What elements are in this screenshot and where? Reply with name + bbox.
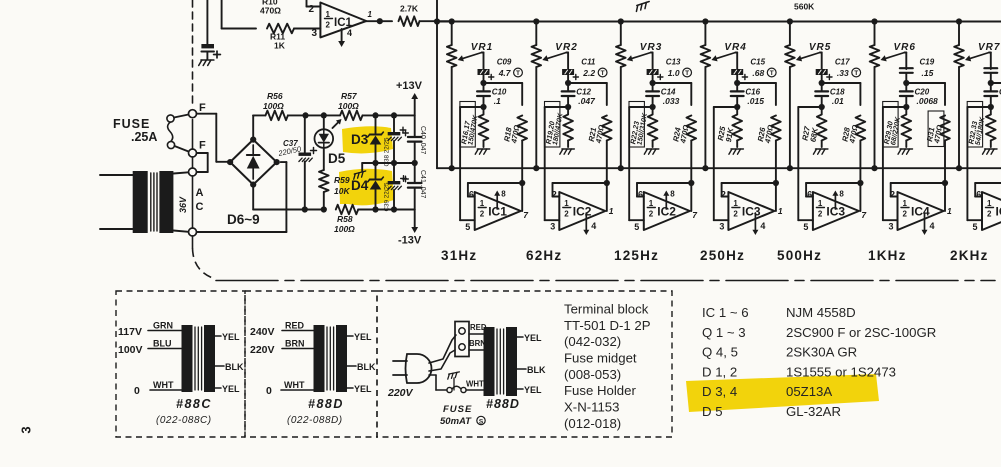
wiper wire VR4 <box>735 52 737 54</box>
svg-text:T: T <box>770 70 774 77</box>
node feedback junction IC3 <box>857 180 863 186</box>
svg-text:S: S <box>479 419 484 426</box>
node C12 bottom junction <box>565 104 571 110</box>
svg-text:125Hz: 125Hz <box>614 248 659 263</box>
node lower bus junction VR7 <box>956 165 962 171</box>
lower bus wire <box>437 167 1001 169</box>
svg-text:F: F <box>199 140 206 152</box>
node lower bus junction VR1 <box>449 165 455 171</box>
capacitor C22 <box>990 83 992 91</box>
wire YEL upper #88D-2 <box>347 335 353 337</box>
ground below R16,17 <box>475 149 490 154</box>
node VR5 cap junction <box>819 80 825 86</box>
svg-text:220V: 220V <box>387 387 414 399</box>
bridge rectifier D6~9 <box>230 140 277 185</box>
resistor R57 <box>340 111 362 121</box>
transformer #88C windings <box>182 325 193 392</box>
svg-text:500Hz: 500Hz <box>777 248 822 263</box>
svg-text:C17: C17 <box>835 58 850 67</box>
terminal F lower <box>189 149 197 157</box>
svg-text:1: 1 <box>564 199 569 208</box>
wire BLK box3 <box>517 368 526 370</box>
resistor R59 <box>323 148 325 170</box>
node top bus junction VR3 <box>618 18 624 24</box>
svg-text:.01: .01 <box>832 96 844 106</box>
svg-text:C: C <box>196 201 204 213</box>
svg-text:1K: 1K <box>274 41 286 51</box>
op-amp 1/2 IC4 <box>898 192 944 230</box>
svg-text:VR5: VR5 <box>809 42 831 53</box>
chain line to parts area <box>216 280 995 282</box>
dashed option box 1 <box>116 291 245 437</box>
svg-text:1: 1 <box>480 199 485 208</box>
potentiometer VR4 <box>704 22 706 46</box>
svg-text:2SC900 F or 2SC-100GR: 2SC900 F or 2SC-100GR <box>786 325 936 340</box>
capacitor C36 <box>206 0 208 44</box>
svg-text:0: 0 <box>134 385 140 397</box>
node lower bus junction VR6 <box>871 165 877 171</box>
op-amp 1/2 IC2 <box>559 192 605 230</box>
capacitor C16 <box>736 83 738 91</box>
feedback wire IC1 <box>468 182 522 184</box>
wire jog terminal F lower to transformer <box>197 152 208 154</box>
node lower bus junction VR2 <box>533 165 539 171</box>
svg-text:IC4: IC4 <box>911 205 930 219</box>
zener diode D4 <box>375 163 377 179</box>
capacitor C41 <box>414 163 416 183</box>
svg-text:1S1555 or 1S2473: 1S1555 or 1S2473 <box>786 364 896 379</box>
svg-text:5: 5 <box>803 222 808 232</box>
svg-text:(022-088D): (022-088D) <box>287 415 343 426</box>
wire BLK #88C <box>215 365 224 367</box>
svg-text:470Ω: 470Ω <box>260 6 281 16</box>
wiper wire VR7 <box>989 52 991 54</box>
svg-text:8: 8 <box>501 190 506 199</box>
svg-text:RED: RED <box>285 321 305 331</box>
svg-text:6: 6 <box>469 190 474 200</box>
svg-text:.68: .68 <box>752 68 764 78</box>
highlight over D4 <box>339 169 394 206</box>
node VR4 cap junction <box>734 80 740 86</box>
capacitor C40 <box>414 115 416 137</box>
svg-text:WHT: WHT <box>466 380 484 389</box>
svg-text:X-N-1153: X-N-1153 <box>564 400 619 415</box>
svg-text:100Ω: 100Ω <box>263 101 284 111</box>
LED D5 <box>323 115 325 129</box>
transformer T1 primary stub wires <box>100 174 133 176</box>
svg-text:T: T <box>685 70 689 77</box>
capacitor C20 <box>905 83 907 91</box>
resistor R21 <box>602 116 612 141</box>
svg-text:YEL: YEL <box>524 385 542 395</box>
transformer T1 windings <box>133 171 148 233</box>
svg-text:6: 6 <box>807 190 812 200</box>
potentiometer VR5 <box>789 22 791 46</box>
feedback wire IC4 <box>891 182 945 184</box>
terminal F upper <box>189 110 197 118</box>
svg-text:2: 2 <box>721 190 726 200</box>
+13V supply arrow <box>414 99 416 115</box>
svg-text:3: 3 <box>312 28 318 39</box>
svg-text:YEL: YEL <box>354 332 372 342</box>
capacitor C37 <box>304 115 306 152</box>
wire RC node to op-amp input <box>967 106 990 108</box>
op-amp 1/2 IC4 <box>982 192 1001 230</box>
wire to resistor R34 <box>991 82 1001 84</box>
wire from R10 to inverting input <box>221 0 223 29</box>
ground below R25 <box>729 149 744 154</box>
svg-text:#88D: #88D <box>308 397 344 411</box>
node feedback junction IC1 <box>519 180 525 186</box>
svg-text:117V: 117V <box>118 326 142 338</box>
svg-text:.015: .015 <box>747 96 764 106</box>
svg-text:4.7: 4.7 <box>498 68 512 78</box>
svg-text:#88C: #88C <box>176 397 212 411</box>
svg-text:D 3, 4: D 3, 4 <box>702 384 737 399</box>
svg-text:VR3: VR3 <box>640 42 662 53</box>
svg-text:(022-088C): (022-088C) <box>156 415 212 426</box>
svg-text:0: 0 <box>266 385 272 397</box>
potentiometer VR7 <box>958 22 960 46</box>
svg-text:3: 3 <box>719 222 724 232</box>
resistor R25 <box>736 107 738 114</box>
svg-text:.0068: .0068 <box>917 96 939 106</box>
node C16 bottom junction <box>734 104 740 110</box>
trimmer capacitor C11 <box>563 70 574 75</box>
wiper wire VR2 <box>566 52 568 54</box>
node C14 bottom junction <box>650 104 656 110</box>
svg-text:GRN: GRN <box>153 321 173 331</box>
svg-text:1: 1 <box>987 199 992 208</box>
highlight over parts list row D3,4 <box>686 374 879 412</box>
transformer #88D windings box3 <box>484 327 495 396</box>
trimmer capacitor C15 <box>732 70 743 75</box>
svg-text:Terminal block: Terminal block <box>564 302 649 317</box>
zener diode D3 <box>375 115 377 134</box>
svg-text:560K: 560K <box>794 2 815 12</box>
svg-text:YEL: YEL <box>222 384 240 394</box>
capacitor C39 <box>393 163 395 181</box>
node VR7 cap junction <box>988 80 994 86</box>
svg-text:VR7: VR7 <box>978 42 1000 53</box>
svg-text:220V: 220V <box>250 344 275 356</box>
svg-text:2.7K: 2.7K <box>400 4 419 14</box>
capacitor C12 <box>567 83 569 91</box>
wire to resistor R24 <box>653 82 692 84</box>
op-amp U IC1 (half a) <box>320 3 366 38</box>
svg-text:BLK: BLK <box>527 365 546 375</box>
svg-text:36V: 36V <box>178 196 188 213</box>
svg-text:C19: C19 <box>920 58 935 67</box>
svg-text:5: 5 <box>634 222 639 232</box>
feedback wire IC3 <box>722 182 776 184</box>
wire down from output node to lower bus <box>436 22 438 169</box>
node lower bus junction VR5 <box>787 165 793 171</box>
svg-text:.047: .047 <box>578 96 596 106</box>
fuse 50mAT <box>447 387 452 392</box>
svg-text:2.2: 2.2 <box>582 68 595 78</box>
svg-text:1: 1 <box>368 10 373 19</box>
svg-text:C40 .047: C40 .047 <box>419 126 426 155</box>
svg-text:2: 2 <box>733 210 738 219</box>
resistor R56 <box>266 111 288 121</box>
svg-text:3: 3 <box>550 222 555 232</box>
svg-text:T: T <box>601 70 605 77</box>
svg-text:R56: R56 <box>267 91 283 101</box>
pin 4 arrow of IC1a <box>341 29 343 41</box>
ground near fuse <box>447 372 461 379</box>
svg-text:31Hz: 31Hz <box>441 248 477 263</box>
highlight over D3 <box>342 126 393 153</box>
wire terminal BRN to winding <box>469 349 484 351</box>
svg-text:2SK30A GR: 2SK30A GR <box>786 345 857 360</box>
svg-text:Fuse Holder: Fuse Holder <box>564 383 636 398</box>
svg-text:IC3: IC3 <box>742 205 761 219</box>
capacitor C38 <box>393 115 395 132</box>
svg-text:1: 1 <box>609 206 614 216</box>
svg-text:BLK: BLK <box>357 362 376 372</box>
svg-text:YEL: YEL <box>354 384 372 394</box>
feedback wire IC4 <box>975 182 1001 184</box>
svg-text:T: T <box>854 70 858 77</box>
svg-text:F: F <box>199 102 206 114</box>
svg-text:IC 1 ~ 6: IC 1 ~ 6 <box>702 305 749 320</box>
svg-text:D4: D4 <box>351 178 369 193</box>
node C20 bottom junction <box>903 104 909 110</box>
wire to resistor R28 <box>822 82 861 84</box>
trimmer capacitor C21 <box>984 67 997 69</box>
svg-text:4: 4 <box>347 28 352 38</box>
svg-text:4: 4 <box>930 221 935 231</box>
svg-text:2: 2 <box>326 21 331 30</box>
wire to resistor R18 <box>484 82 523 84</box>
svg-text:D 1, 2: D 1, 2 <box>702 364 737 379</box>
svg-text:240V: 240V <box>250 326 275 338</box>
wire fuse to terminal F upper <box>174 115 189 118</box>
wire plug low to fuse <box>435 375 437 390</box>
trimmer capacitor C19 <box>900 67 913 69</box>
trimmer capacitor C09 <box>478 70 489 75</box>
node C10 bottom junction <box>480 104 486 110</box>
wire RC node to op-amp input <box>545 106 568 108</box>
svg-text:-13V: -13V <box>398 235 422 247</box>
node VR3 cap junction <box>650 80 656 86</box>
resistor R28 <box>856 116 866 141</box>
feedback wire IC2 <box>553 182 607 184</box>
svg-text:1: 1 <box>733 199 738 208</box>
wire RC node to op-amp input <box>714 106 737 108</box>
positive rail wire <box>253 114 254 116</box>
svg-text:Q 1 ~ 3: Q 1 ~ 3 <box>702 325 746 340</box>
svg-text:6: 6 <box>638 190 643 200</box>
mid reference wire with ground <box>362 162 415 164</box>
svg-text:1: 1 <box>326 10 331 19</box>
wiper wire VR1 <box>482 52 484 54</box>
terminal AC lower <box>189 228 197 236</box>
op-amp 1/2 IC3 <box>728 192 774 230</box>
node lower bus junction VR3 <box>618 165 624 171</box>
svg-text:3: 3 <box>889 222 894 232</box>
wire bridge + to rail <box>252 115 254 139</box>
op-amp 1/2 IC1 <box>475 192 521 230</box>
svg-text:C38 22/25: C38 22/25 <box>384 137 391 167</box>
node top bus junction VR1 <box>449 18 455 24</box>
resistor R29,30 <box>905 107 907 114</box>
svg-text:#88D: #88D <box>486 397 520 411</box>
potentiometer VR2 <box>535 22 537 46</box>
terminal AC upper <box>189 168 197 176</box>
svg-text:2: 2 <box>309 4 315 15</box>
svg-text:3: 3 <box>19 426 34 433</box>
svg-text:VR1: VR1 <box>471 42 493 53</box>
node C18 bottom junction <box>819 104 825 110</box>
resistor R22,23 <box>652 107 654 114</box>
svg-text:10K: 10K <box>334 186 350 196</box>
wire to resistor R31 <box>906 82 945 84</box>
svg-text:100Ω: 100Ω <box>334 224 355 234</box>
mains plug <box>406 354 432 383</box>
wire to resistor R21 <box>568 82 607 84</box>
svg-text:+13V: +13V <box>396 80 423 92</box>
svg-text:2: 2 <box>890 190 895 200</box>
capacitor C10 <box>483 83 485 91</box>
svg-text:C41 .047: C41 .047 <box>419 170 426 199</box>
resistor R16,17 <box>483 107 485 114</box>
svg-text:D6~9: D6~9 <box>227 212 260 227</box>
potentiometer VR6 <box>874 22 876 46</box>
resistor R26 <box>771 116 781 141</box>
feedback wire IC2 <box>637 182 691 184</box>
node VR6 cap junction <box>903 80 909 86</box>
resistor R19,20 <box>567 107 569 114</box>
trimmer capacitor C17 <box>816 70 827 75</box>
svg-text:6: 6 <box>976 190 981 200</box>
terminal block TT-501 <box>455 322 469 357</box>
wire to resistor R26 <box>737 82 776 84</box>
resistor R32,33 <box>990 107 992 114</box>
svg-text:250Hz: 250Hz <box>700 248 745 263</box>
svg-text:VR2: VR2 <box>555 42 577 53</box>
op-amp 1/2 IC2 <box>644 192 690 230</box>
wire RC node to op-amp input <box>883 106 906 108</box>
resistor R31 <box>940 116 950 141</box>
node feedback junction IC2 <box>604 180 610 186</box>
svg-text:2: 2 <box>987 210 992 219</box>
ground below R22,23 <box>644 149 659 154</box>
svg-text:1: 1 <box>778 206 783 216</box>
svg-text:2: 2 <box>480 210 485 219</box>
potentiometer VR1 <box>451 22 453 46</box>
resistor R24 <box>687 116 697 141</box>
node top bus junction VR7 <box>956 18 962 24</box>
svg-text:C39 22/25: C39 22/25 <box>384 182 391 212</box>
svg-text:1: 1 <box>903 199 908 208</box>
node feedback junction IC4 <box>942 180 948 186</box>
wire terminal RED to winding <box>469 333 484 335</box>
node VR2 cap junction <box>565 80 571 86</box>
wire RC node to op-amp input <box>629 106 652 108</box>
node feedback junction IC2 <box>688 180 694 186</box>
svg-text:YEL: YEL <box>524 333 542 343</box>
wire RC node to op-amp input <box>460 106 483 108</box>
wiper wire VR5 <box>820 52 822 54</box>
wire terminal F to bridge AC1 <box>197 113 217 115</box>
svg-text:2: 2 <box>564 210 569 219</box>
svg-text:R57: R57 <box>341 91 358 101</box>
svg-text:1: 1 <box>947 206 952 216</box>
negative rail wire <box>252 185 254 210</box>
wire YEL lower #88D-2 <box>347 387 353 389</box>
svg-text:.33: .33 <box>837 68 849 78</box>
resistor R18 <box>517 116 527 141</box>
svg-text:4: 4 <box>760 221 765 231</box>
svg-text:2: 2 <box>903 210 908 219</box>
trimmer capacitor C13 <box>647 70 658 75</box>
svg-text:2: 2 <box>552 190 557 200</box>
svg-text:WHT: WHT <box>284 380 305 390</box>
svg-text:2: 2 <box>818 210 823 219</box>
svg-text:(042-032): (042-032) <box>564 334 621 349</box>
svg-text:1: 1 <box>818 199 823 208</box>
svg-text:5: 5 <box>973 222 978 232</box>
ground on top bus <box>635 1 651 11</box>
node top bus junction VR4 <box>702 18 708 24</box>
svg-text:D3: D3 <box>351 132 369 147</box>
node top bus junction VR2 <box>533 18 539 24</box>
transformer #88D windings <box>314 325 325 392</box>
node top bus junction VR6 <box>871 18 877 24</box>
svg-text:R58: R58 <box>337 214 353 224</box>
wire fuse to terminal F lower <box>175 146 189 152</box>
node VR1 cap junction <box>480 80 486 86</box>
svg-text:.1: .1 <box>494 96 501 106</box>
wire AC lower to bridge AC2 <box>197 231 287 233</box>
svg-text:62Hz: 62Hz <box>526 248 562 263</box>
svg-text:YEL: YEL <box>222 332 240 342</box>
svg-text:NJM 4558D: NJM 4558D <box>786 305 856 320</box>
svg-text:R59: R59 <box>334 175 350 185</box>
feedback wire IC3 <box>806 182 860 184</box>
node feedback junction IC3 <box>773 180 779 186</box>
resistor R27 <box>821 107 823 114</box>
wire to op-amp pin 2 <box>306 0 308 7</box>
svg-text:C11: C11 <box>581 58 596 67</box>
resistor R58 <box>336 205 358 215</box>
wire YEL upper box3 <box>517 336 523 338</box>
svg-text:8: 8 <box>670 190 675 199</box>
svg-text:IC2: IC2 <box>573 205 592 219</box>
ground below R29,30 <box>898 149 913 154</box>
svg-text:1: 1 <box>649 199 654 208</box>
svg-text:TT-501 D-1 2P: TT-501 D-1 2P <box>564 318 651 333</box>
fuse symbol <box>167 115 174 122</box>
ground below C36 <box>199 60 214 66</box>
resistor R11 <box>222 28 256 30</box>
op-amp 1/2 IC3 <box>813 192 859 230</box>
svg-text:100V: 100V <box>118 344 143 356</box>
svg-text:D5: D5 <box>328 151 346 166</box>
svg-text:IC4: IC4 <box>996 205 1001 219</box>
wire YEL upper #88C <box>215 335 221 337</box>
svg-text:Q 4, 5: Q 4, 5 <box>702 345 738 360</box>
wire secondary to AC terminals <box>173 172 188 173</box>
svg-text:GL-32AR: GL-32AR <box>786 404 841 419</box>
svg-text:C13: C13 <box>666 58 681 67</box>
capacitor C14 <box>652 83 654 91</box>
svg-text:C15: C15 <box>750 58 765 67</box>
node top bus junction VR5 <box>787 18 793 24</box>
svg-text:100Ω: 100Ω <box>338 101 359 111</box>
